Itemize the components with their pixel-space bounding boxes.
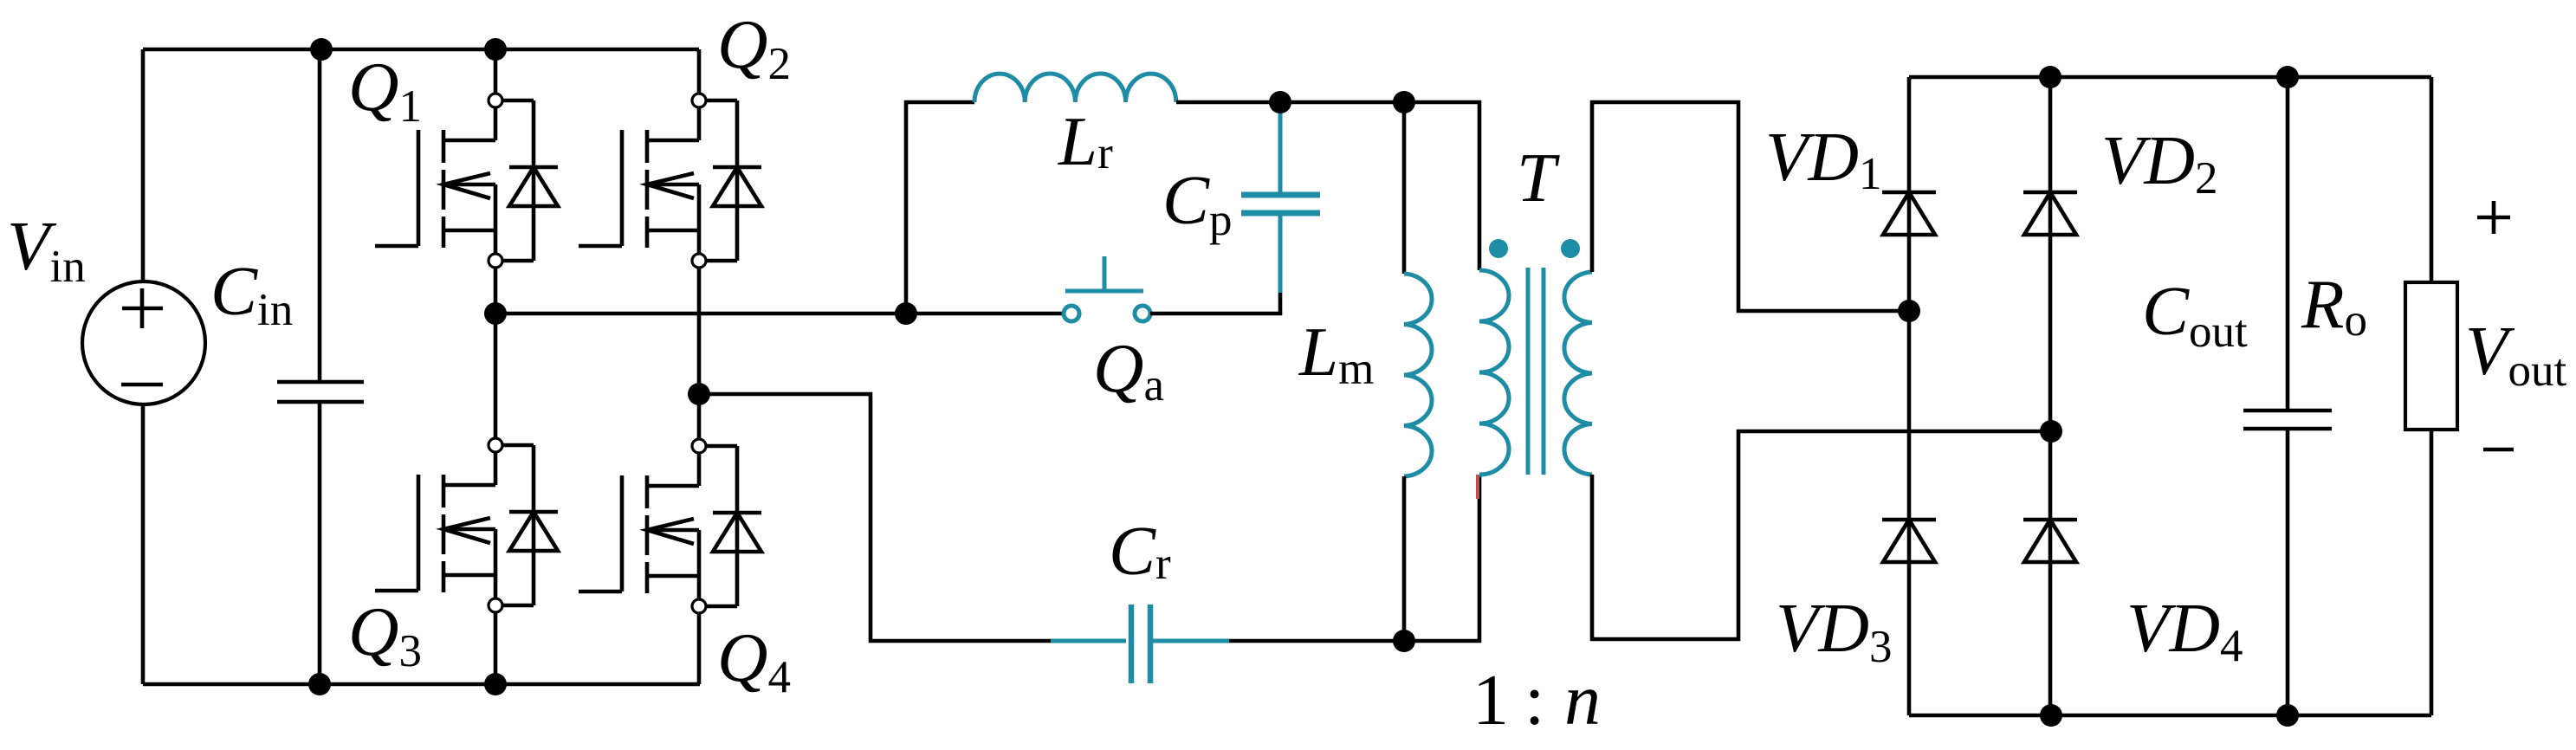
node Q1 top [484,38,507,61]
transformer red mark [1476,475,1479,499]
wire leg2 midpoint to Cr [699,394,1051,641]
transformer primary dot [1489,239,1508,258]
node Cin bottom [308,673,331,695]
minus sign output [2483,448,2514,452]
wire Lr left riser [906,102,974,314]
diode VD2 [2023,192,2077,235]
node Lm top [1393,91,1415,113]
inductor Lm [1404,274,1432,476]
wire secondary top lead [1592,102,1909,311]
wire rectifier top rail [1909,75,2431,80]
svg-text:1:n: 1:n [1472,660,1601,740]
wire top node to transformer [1280,102,1479,270]
wire secondary bottom lead [1592,431,2051,639]
wire bottom rail input [143,682,700,687]
wire Lm top lead [1402,102,1407,274]
capacitor Cp [1278,102,1283,293]
transistor Q4 [579,439,761,613]
wire bottom resonant rail [1229,475,1479,641]
wire load branch [2430,77,2434,715]
transformer T primary winding [1479,270,1509,475]
wire VD2 branch [2049,77,2053,715]
wire rectifier bottom rail [1909,714,2431,718]
wire left branch lower [141,404,146,684]
wire Q1 source to mid rail [494,268,498,314]
node rectifier input b [2040,420,2062,443]
wire left branch upper [141,49,146,281]
transistor Q3 [375,438,558,612]
wire Q4 source lead [697,613,702,684]
capacitor Cout [2286,77,2290,411]
transformer T secondary winding [1564,272,1592,475]
resistor Ro [2405,282,2457,430]
node Cout bottom [2276,704,2299,727]
capacitor Cin [318,49,322,382]
node VD2 top [2039,66,2061,88]
node VD4 bottom [2040,704,2062,727]
wire mid rail A [495,312,1064,316]
transistor Q2 [579,94,761,268]
node Cp top [1269,91,1291,113]
switch Qa [1064,256,1150,321]
wire Q2 source to Q4 drain [697,268,702,439]
wire VD1 branch [1907,77,1912,715]
wire Q3 source lead [494,612,498,684]
wire Q1 drain lead [494,49,498,94]
capacitor Cr [1051,639,1229,643]
wire Lr to node [1176,100,1280,105]
diode VD3 [1882,520,1936,562]
transformer core [1528,268,1544,475]
node Cout top [2276,66,2299,88]
node resonant input [895,302,917,325]
transformer secondary dot [1561,239,1580,258]
wire Lm bottom lead [1402,476,1407,641]
node Q3 bottom [484,673,507,695]
node transformer bottom [1393,630,1415,652]
diode VD1 [1882,192,1936,235]
inductor Lr [974,74,1176,102]
wire Q2 drain lead [697,49,702,94]
wire Qa to Cp [1150,293,1280,314]
node leg1 midpoint [484,302,507,325]
node rectifier input a [1898,300,1920,322]
wire Q3 drain lead [494,314,498,438]
wire top rail input [143,48,699,52]
plus sign output [2477,201,2510,234]
voltage source Vin [82,281,205,404]
diode VD4 [2023,520,2077,562]
transistor Q1 [375,94,558,268]
node Cin top [310,38,333,61]
node leg2 midpoint [688,383,710,405]
svg-text:T: T [1517,139,1560,217]
